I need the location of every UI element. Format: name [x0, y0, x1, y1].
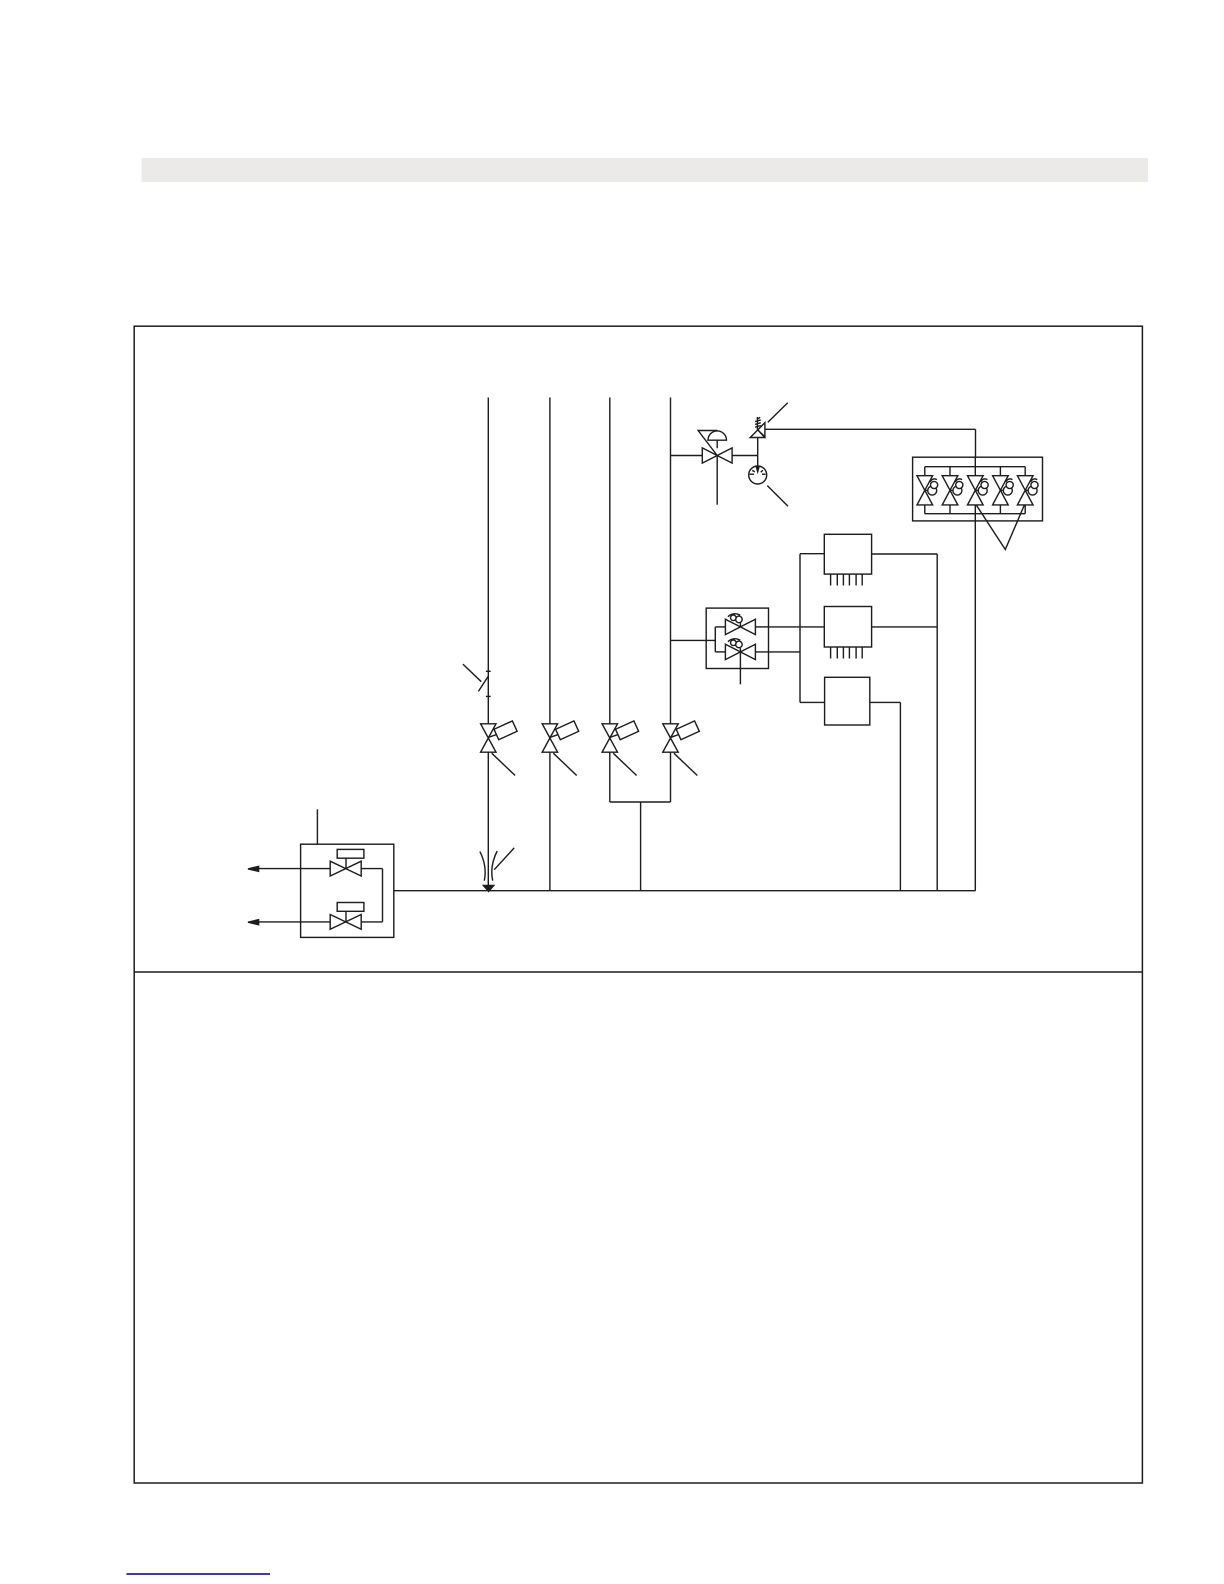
wire relief valve drop: [757, 438, 759, 476]
pressure regulator dome actuator: [708, 431, 727, 440]
wire B3 right: [870, 701, 901, 703]
wire L2 lower: [549, 752, 551, 891]
manifold valve V5: [1024, 467, 1026, 476]
wire L4 lower: [670, 752, 672, 802]
wire manifold top header: [925, 466, 1025, 468]
manifold box: [913, 457, 1043, 521]
actuated valve AV2: [542, 724, 557, 752]
component box B2: [824, 607, 871, 648]
manifold valve V1: [924, 467, 926, 476]
pressure gauge: [749, 466, 767, 484]
actuated valve AV4: [663, 724, 678, 752]
wire L3-L4 connector: [610, 801, 671, 803]
wire vertical x937: [936, 554, 938, 891]
wire L1 upper: [487, 398, 489, 724]
dual valve box drain stub: [739, 652, 741, 684]
relief valve spring: [756, 417, 758, 430]
drain hose curves: [480, 852, 485, 881]
pressure regulator flag: [698, 431, 717, 456]
wire manifold feed through: [974, 457, 976, 467]
wire L4 upper: [670, 398, 672, 724]
outlet box inner bar: [382, 869, 384, 922]
wire dual box inlet bar: [714, 627, 716, 652]
wire manifold vertical below box: [974, 521, 976, 891]
dual valve SV2: [715, 651, 725, 653]
wire B2 right: [872, 626, 938, 628]
wire L3 lower: [609, 752, 611, 802]
header bar: [142, 158, 1149, 182]
wire L1 lower: [487, 752, 489, 889]
manifold V leader: [976, 505, 1024, 550]
dual valve box: [706, 608, 768, 668]
outlet box top stub: [316, 809, 318, 844]
relief valve leader line: [768, 403, 788, 423]
wire bottom main line: [394, 890, 976, 892]
wire B3 left: [800, 701, 825, 703]
wire B2 left: [769, 626, 825, 628]
outlet valve OV1: [337, 849, 364, 858]
actuated valve AV1: [481, 724, 496, 752]
wire top run: [765, 428, 975, 430]
outlet arrow A1: [248, 866, 259, 871]
drain hose leader line: [494, 848, 514, 870]
relief valve body: [750, 423, 765, 438]
wire B1 right: [872, 553, 938, 555]
wire L2 upper: [549, 398, 551, 724]
footer link underline: [127, 1573, 271, 1575]
manifold valve V4: [999, 467, 1001, 476]
pressure regulator valve body: [702, 448, 732, 463]
frame divider: [134, 971, 1142, 973]
wire B1 left: [800, 553, 824, 555]
outer frame: [134, 326, 1142, 1483]
wire manifold bottom header: [925, 513, 1025, 515]
component box B2 hatching: [830, 647, 832, 659]
drain arrow head: [483, 886, 493, 892]
wire top run corner drop: [975, 429, 977, 457]
pressure gauge leader line: [767, 486, 788, 507]
break symbol on L1: [486, 670, 491, 672]
pressure regulator stem below: [716, 456, 718, 505]
outlet arrow A2: [248, 920, 259, 925]
dual valve SV1: [715, 626, 725, 628]
wire vertical x800: [799, 554, 801, 703]
actuated valve AV3: [602, 724, 617, 752]
wire regulator to tee: [732, 455, 757, 457]
outlet box: [301, 844, 394, 937]
wire L3 upper: [609, 398, 611, 724]
wire vertical x900: [899, 702, 901, 890]
wire L4 to dual valve box: [671, 639, 716, 641]
manifold valve V3: [974, 467, 976, 476]
component box B1: [824, 534, 871, 574]
outlet valve OV2: [337, 903, 364, 912]
component box B3: [825, 677, 870, 725]
component box B1 hatching: [830, 574, 832, 585]
wire L4 to pressure regulator: [671, 455, 703, 457]
wire junction drop: [640, 802, 642, 891]
manifold valve V2: [949, 467, 951, 476]
